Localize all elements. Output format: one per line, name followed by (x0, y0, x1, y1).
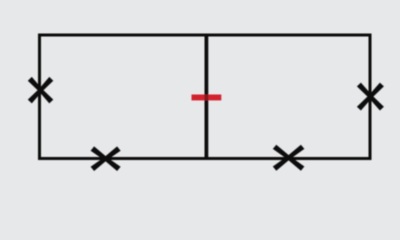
wire: middle vertical branch (204, 34, 208, 160)
lamp X on right wire (357, 83, 384, 111)
lamp X on bottom-right wire (273, 145, 305, 171)
lamp X on left wire (28, 77, 54, 104)
battery crossing (wire showing through red bar) (205, 95, 209, 101)
battery (red bar) on middle branch (192, 95, 222, 101)
lamp X on bottom-left wire (91, 146, 121, 171)
wire: circuit rectangle outline (40, 35, 371, 159)
